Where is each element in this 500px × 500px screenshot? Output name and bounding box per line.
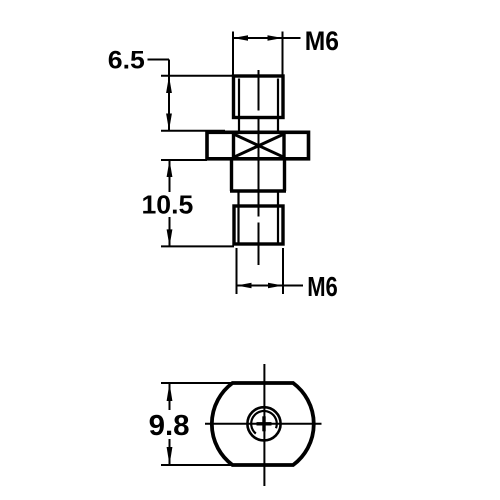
dimension 9.8: dimension line upper segment <box>169 383 171 410</box>
dimension M6 top: left extension line <box>232 32 234 76</box>
end view: center plus mark vertical <box>262 416 265 431</box>
end view: vertical center line <box>263 364 265 486</box>
collar X diagonal 2 <box>234 134 285 157</box>
end view: thread major 3/4 arc <box>251 411 277 434</box>
dimension M6 top: dimension line <box>233 37 301 39</box>
dimension 9.8: upper extension line <box>161 382 235 384</box>
svg-text:M6: M6 <box>307 271 338 302</box>
end view: horizontal center line <box>205 423 322 425</box>
bottom thread minor-diameter line right <box>277 193 279 245</box>
end view: center plus mark horizontal <box>257 422 272 425</box>
svg-text:6.5: 6.5 <box>108 47 145 75</box>
svg-text:9.8: 9.8 <box>149 410 190 442</box>
collar inner vertical right <box>282 132 285 159</box>
dimension 6.5: lower extension line <box>161 130 225 132</box>
end view: thread minor full circle <box>247 407 280 440</box>
dimension 6.5: vertical dimension line <box>168 60 170 131</box>
dimension 6.5: leader line <box>148 59 170 61</box>
shank section right edge <box>283 159 286 191</box>
dimension 10.5: dimension line lower segment <box>169 217 171 246</box>
dimension M6 bottom: dimension line <box>237 285 304 287</box>
dimension 9.8: lower extension line <box>161 464 235 466</box>
dimension 10.5: down arrowhead <box>167 229 173 246</box>
dimension M6 bottom: right extension line <box>282 248 284 294</box>
dimension M6 top: right extension line <box>282 32 284 76</box>
top thread minor-diameter line right <box>277 79 279 132</box>
vertical center line of stud (dashed) <box>258 70 260 111</box>
end view: outer profile circle with top/bottom flats <box>212 383 314 465</box>
top thread minor-diameter line left <box>238 79 240 132</box>
svg-text:M6: M6 <box>305 26 339 56</box>
svg-text:10.5: 10.5 <box>142 189 194 219</box>
dimension 9.8: dimension line lower segment <box>169 439 171 465</box>
collar X diagonal 1 <box>234 134 285 157</box>
dimension 10.5: upper extension line <box>161 159 207 161</box>
dimension 10.5: up arrowhead <box>167 160 173 177</box>
bottom threaded stud: outer rectangle (major diameter) <box>234 206 283 244</box>
top threaded stud: outer rectangle (major diameter) <box>234 76 284 118</box>
shank bottom edge <box>230 189 286 192</box>
dimension M6 top: right arrowhead <box>268 35 283 41</box>
collar inner vertical left <box>232 132 235 159</box>
dimension 6.5: down arrowhead <box>166 114 172 131</box>
dimension 9.8: down arrowhead <box>167 447 173 465</box>
dimension 6.5: up arrowhead <box>166 76 172 93</box>
dimension M6 bottom: left extension line <box>236 248 238 294</box>
dimension 6.5: upper extension line <box>161 75 233 77</box>
dimension M6 top: left arrowhead <box>233 35 248 41</box>
dimension M6 bottom: right arrowhead <box>268 283 283 289</box>
shank section left edge <box>230 159 233 191</box>
dimension 10.5: lower extension line <box>161 245 234 247</box>
bottom thread minor-diameter line left <box>237 193 239 245</box>
dimension M6 bottom: left arrowhead <box>237 283 252 289</box>
dimension 9.8: up arrowhead <box>167 383 173 401</box>
dimension 10.5: dimension line upper segment <box>169 160 171 192</box>
knurled collar: outer rectangle <box>207 132 309 159</box>
